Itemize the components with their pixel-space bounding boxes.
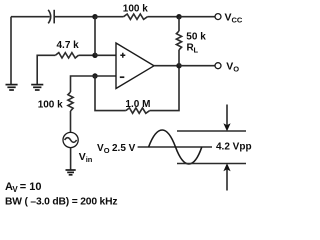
source Vin (sine generator)	[63, 132, 78, 147]
ground G1 (top left)	[6, 85, 18, 90]
ground G3	[66, 170, 76, 175]
wire resistor RL to node E	[178, 50, 180, 66]
arrow up to bottom reference	[223, 163, 230, 190]
svg-text:2.5 V: 2.5 V	[112, 143, 136, 154]
label Av = 10	[5, 181, 42, 194]
wire 4.7k to node C	[79, 54, 96, 56]
terminal Vo	[215, 63, 221, 69]
wire op-amp output to node E	[154, 65, 179, 67]
wire resistor to source Vin	[70, 111, 72, 132]
label Vo 2.5 V (waveform dc level)	[97, 143, 136, 155]
wire node D left and down to resistor 100k (input)	[71, 76, 96, 92]
wire feedback right and up to output node	[150, 66, 179, 111]
svg-text:V: V	[225, 11, 232, 23]
label RL	[187, 42, 199, 54]
wire left vertical to ground	[10, 17, 12, 84]
wire ground G2 up to 4.7k	[37, 55, 55, 84]
op-amp U1	[116, 43, 154, 89]
svg-text:CC: CC	[232, 15, 243, 24]
reference line bottom (trough)	[177, 163, 246, 165]
waveform midline	[138, 146, 212, 148]
svg-text:V: V	[12, 185, 18, 194]
wire node A to resistor 100k top	[95, 16, 124, 18]
label 4.7 k	[57, 40, 80, 51]
wire node D to op-amp - input	[95, 75, 116, 77]
wire node B to Vcc terminal	[179, 16, 215, 18]
label Vo	[226, 60, 239, 73]
resistor 1.0M feedback	[126, 108, 150, 113]
capacitor C1	[48, 10, 54, 24]
svg-text:V: V	[226, 60, 233, 72]
label Vcc	[225, 11, 243, 24]
svg-text:4.7 k: 4.7 k	[57, 40, 80, 51]
wire resistor to node B	[148, 16, 180, 18]
label BW (-3.0 dB) = 200 kHz	[5, 196, 118, 207]
node B junction	[176, 14, 181, 19]
resistor 100k (input, vertical)	[68, 92, 73, 111]
svg-text:50 k: 50 k	[186, 32, 206, 43]
resistor 4.7k	[55, 53, 78, 58]
wire node C to op-amp + input	[95, 54, 116, 56]
label 1.0 M	[125, 99, 150, 110]
resistor RL 50k (vertical)	[176, 31, 181, 50]
wire node E to Vo terminal	[179, 65, 215, 67]
svg-text:BW ( –3.0 dB) = 200 kHz: BW ( –3.0 dB) = 200 kHz	[5, 196, 118, 207]
reference line top (peak)	[177, 130, 246, 132]
svg-text:100 k: 100 k	[123, 4, 148, 15]
label 100 k (input resistor)	[38, 100, 63, 111]
wire top-left horizontal	[11, 16, 50, 18]
svg-text:= 10: = 10	[20, 181, 42, 193]
svg-text:in: in	[86, 155, 93, 164]
ground G2	[31, 85, 43, 90]
label 100 k (top resistor)	[123, 4, 148, 15]
resistor 100k (top)	[124, 14, 148, 19]
arrow down to top reference	[223, 105, 230, 132]
svg-text:O: O	[104, 146, 110, 155]
node E junction (output node)	[176, 63, 181, 68]
wire node A down to node C	[94, 17, 96, 56]
node C junction (+ input node)	[92, 53, 97, 58]
label Vin	[79, 151, 93, 164]
wire capacitor to node A	[54, 16, 95, 18]
svg-text:L: L	[194, 45, 199, 54]
terminal Vcc	[215, 14, 221, 20]
node D junction (- input node)	[92, 73, 97, 78]
waveform sine	[149, 130, 202, 164]
label 4.2 Vpp	[216, 141, 252, 152]
node A junction	[92, 14, 97, 19]
svg-text:4.2 Vpp: 4.2 Vpp	[216, 141, 252, 152]
svg-text:100 k: 100 k	[38, 100, 63, 111]
label 50 k	[186, 32, 206, 43]
wire node B down to resistor RL	[178, 17, 180, 31]
svg-text:1.0 M: 1.0 M	[125, 99, 150, 110]
svg-text:O: O	[233, 64, 239, 73]
wire source to ground G3	[70, 148, 72, 170]
wire feedback: node D down	[95, 76, 126, 111]
